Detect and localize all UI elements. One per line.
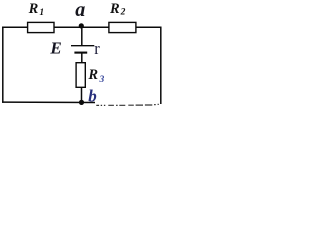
svg-text:R: R — [109, 1, 120, 17]
node a (junction dot) — [79, 23, 84, 28]
svg-text:R: R — [87, 67, 98, 83]
wire: right side — [160, 27, 162, 104]
svg-text:a: a — [75, 0, 85, 21]
wire: node a down to battery — [81, 26, 83, 45]
battery E short thick plate (negative terminal) — [74, 52, 87, 54]
svg-text:R: R — [28, 1, 39, 17]
svg-text:2: 2 — [120, 7, 126, 17]
svg-text:3: 3 — [99, 75, 105, 85]
resistor R1 (box) — [28, 22, 54, 32]
svg-text:b: b — [88, 86, 97, 105]
wire: battery to resistor R3 — [81, 53, 83, 63]
node b (junction dot) — [79, 100, 84, 105]
resistor R3 (vertical box) — [76, 63, 85, 88]
svg-text:E: E — [49, 39, 61, 58]
wire: bottom right dash-dot segment — [96, 104, 159, 105]
wire: top side middle segment (R1 to R2 through node a) — [54, 26, 110, 28]
wire: resistor R3 down to node b — [81, 87, 83, 102]
svg-text:1: 1 — [39, 8, 44, 18]
wire: bottom side solid (left corner to past node b) — [2, 101, 95, 103]
wire: top side right segment — [136, 26, 162, 28]
battery E long plate (positive terminal) — [71, 45, 94, 47]
svg-text:r: r — [94, 39, 100, 58]
wire: left side — [2, 27, 4, 103]
wire: top side left segment — [2, 26, 28, 28]
resistor R2 (box) — [109, 22, 136, 32]
